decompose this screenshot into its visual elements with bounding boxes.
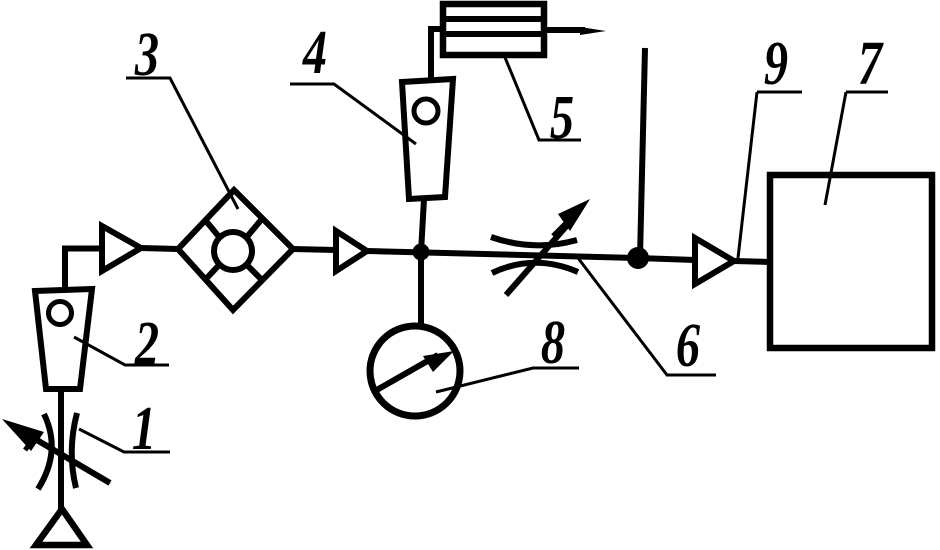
svg-text:8: 8 (541, 308, 565, 377)
svg-text:5: 5 (550, 83, 574, 152)
svg-text:9: 9 (764, 29, 788, 98)
svg-text:1: 1 (132, 394, 156, 463)
svg-text:3: 3 (134, 20, 159, 89)
svg-text:6: 6 (676, 311, 700, 380)
svg-text:4: 4 (302, 18, 327, 87)
svg-text:7: 7 (858, 29, 884, 98)
svg-text:2: 2 (134, 309, 159, 378)
